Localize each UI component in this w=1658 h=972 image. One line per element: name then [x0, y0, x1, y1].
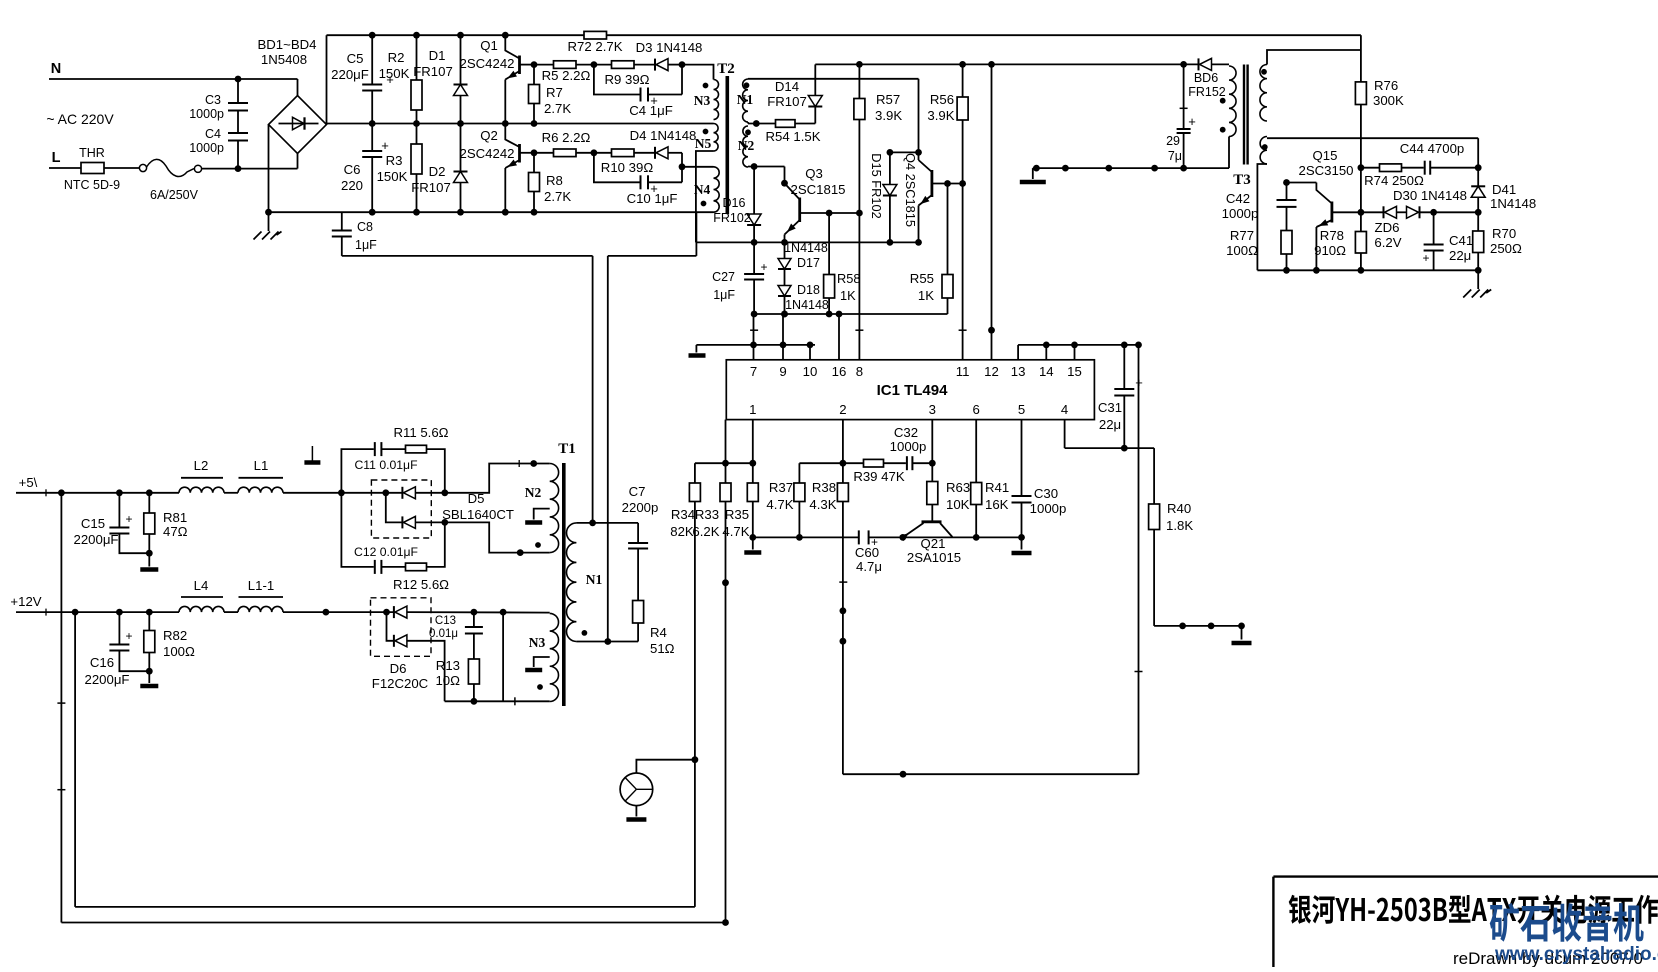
svg-text:FR102: FR102: [713, 211, 751, 225]
svg-text:12: 12: [984, 364, 999, 379]
svg-text:14: 14: [1039, 364, 1054, 379]
svg-text:250Ω: 250Ω: [1490, 241, 1522, 256]
svg-text:100Ω: 100Ω: [163, 644, 195, 659]
svg-text:2200μF: 2200μF: [74, 532, 119, 547]
svg-text:L2: L2: [194, 458, 209, 473]
svg-text:3.9K: 3.9K: [875, 108, 902, 123]
svg-text:1K: 1K: [918, 288, 934, 303]
svg-text:R70: R70: [1492, 226, 1516, 241]
svg-text:22μ: 22μ: [1449, 248, 1471, 263]
svg-text:D4 1N4148: D4 1N4148: [630, 128, 697, 143]
svg-text:T1: T1: [558, 441, 576, 457]
svg-text:R34: R34: [671, 507, 695, 522]
svg-text:D15 FR102: D15 FR102: [869, 153, 884, 218]
svg-text:15: 15: [1067, 364, 1082, 379]
svg-text:+: +: [125, 512, 132, 526]
svg-text:D18: D18: [797, 283, 820, 297]
svg-text:9: 9: [779, 364, 786, 379]
svg-text:2SC3150: 2SC3150: [1299, 163, 1354, 178]
svg-text:FR107: FR107: [767, 94, 807, 109]
svg-text:Q2: Q2: [480, 128, 498, 143]
svg-text:R3: R3: [386, 153, 403, 168]
svg-text:910Ω: 910Ω: [1314, 243, 1346, 258]
svg-text:6A/250V: 6A/250V: [150, 188, 199, 202]
svg-text:R78: R78: [1320, 228, 1344, 243]
svg-text:C32: C32: [894, 425, 918, 440]
svg-text:IC1 TL494: IC1 TL494: [877, 382, 949, 399]
svg-text:6.2V: 6.2V: [1374, 235, 1401, 250]
svg-text:R41: R41: [985, 480, 1009, 495]
svg-text:C5: C5: [347, 51, 364, 66]
svg-text:R9 39Ω: R9 39Ω: [604, 72, 649, 87]
svg-text:R12 5.6Ω: R12 5.6Ω: [393, 577, 449, 592]
svg-text:3: 3: [929, 402, 936, 417]
svg-text:1N4148: 1N4148: [785, 298, 829, 312]
svg-text:13: 13: [1011, 364, 1026, 379]
svg-text:2SC1815: 2SC1815: [791, 182, 846, 197]
svg-text:Q3: Q3: [805, 166, 823, 181]
svg-text:C31: C31: [1098, 400, 1122, 415]
svg-text:R40: R40: [1167, 501, 1191, 516]
svg-text:L1: L1: [254, 458, 269, 473]
svg-text:8: 8: [856, 364, 863, 379]
svg-text:2SA1015: 2SA1015: [907, 550, 961, 565]
svg-text:150K: 150K: [377, 169, 408, 184]
svg-text:FR107: FR107: [413, 64, 453, 79]
svg-text:82K: 82K: [670, 524, 694, 539]
svg-text:220: 220: [341, 178, 363, 193]
svg-text:FR107: FR107: [411, 180, 451, 195]
svg-text:10Ω: 10Ω: [435, 673, 460, 688]
svg-text:T3: T3: [1233, 172, 1251, 188]
svg-text:C11 0.01μF: C11 0.01μF: [354, 458, 417, 472]
svg-text:R38: R38: [812, 480, 836, 495]
svg-text:C60: C60: [855, 545, 879, 560]
svg-text:300K: 300K: [1373, 93, 1404, 108]
svg-text:1N5408: 1N5408: [261, 52, 307, 67]
svg-text:11: 11: [956, 364, 970, 379]
svg-text:+12V: +12V: [10, 594, 41, 609]
svg-text:C10 1μF: C10 1μF: [627, 191, 678, 206]
svg-text:NTC 5D-9: NTC 5D-9: [64, 178, 120, 192]
svg-text:R7: R7: [546, 85, 563, 100]
svg-text:C42: C42: [1226, 191, 1250, 206]
svg-text:10K: 10K: [946, 497, 970, 512]
svg-text:4.7K: 4.7K: [722, 524, 749, 539]
svg-text:C13: C13: [435, 615, 456, 627]
svg-text:10: 10: [803, 364, 818, 379]
svg-text:Q4 2SC1815: Q4 2SC1815: [903, 153, 918, 227]
svg-text:4.7K: 4.7K: [766, 497, 793, 512]
svg-text:R74 250Ω: R74 250Ω: [1364, 173, 1424, 188]
svg-text:D30 1N4148: D30 1N4148: [1393, 188, 1467, 203]
svg-text:R33: R33: [695, 507, 719, 522]
svg-text:R6 2.2Ω: R6 2.2Ω: [542, 130, 591, 145]
svg-text:+: +: [760, 260, 767, 274]
svg-text:T2: T2: [717, 61, 735, 77]
svg-text:0.01μ: 0.01μ: [429, 628, 458, 640]
svg-text:2SC4242: 2SC4242: [460, 56, 515, 71]
svg-text:C12 0.01μF: C12 0.01μF: [354, 545, 418, 559]
svg-text:+: +: [1422, 251, 1429, 265]
svg-text:D17: D17: [797, 256, 820, 270]
svg-text:R35: R35: [725, 507, 749, 522]
svg-text:2.7K: 2.7K: [544, 189, 571, 204]
svg-text:C15: C15: [81, 516, 105, 531]
svg-text:R5 2.2Ω: R5 2.2Ω: [542, 68, 591, 83]
svg-text:1μF: 1μF: [713, 288, 735, 302]
svg-text:16K: 16K: [985, 497, 1009, 512]
svg-text:1K: 1K: [840, 288, 856, 303]
svg-text:D1: D1: [429, 48, 446, 63]
svg-text:R54 1.5K: R54 1.5K: [766, 129, 821, 144]
svg-text:+: +: [381, 138, 389, 153]
svg-text:+: +: [125, 629, 132, 643]
svg-text:1: 1: [749, 402, 756, 417]
svg-text:ZD6: ZD6: [1375, 220, 1400, 235]
svg-text:N5: N5: [695, 136, 712, 151]
svg-text:R77: R77: [1230, 228, 1254, 243]
svg-text:C30: C30: [1034, 486, 1058, 501]
svg-text:THR: THR: [79, 146, 105, 160]
svg-text:1000p: 1000p: [1030, 501, 1067, 516]
svg-text:29: 29: [1166, 134, 1180, 148]
svg-text:N3: N3: [694, 93, 711, 108]
svg-text:BD1~BD4: BD1~BD4: [257, 37, 316, 52]
svg-text:1000p: 1000p: [189, 107, 224, 121]
svg-text:100Ω: 100Ω: [1226, 243, 1258, 258]
svg-text:R76: R76: [1374, 78, 1398, 93]
svg-text:R72 2.7K: R72 2.7K: [568, 39, 623, 54]
svg-text:51Ω: 51Ω: [650, 641, 675, 656]
svg-text:C27: C27: [712, 270, 735, 284]
svg-text:1μF: 1μF: [355, 238, 377, 252]
svg-text:2SC4242: 2SC4242: [460, 146, 515, 161]
svg-text:1000p: 1000p: [189, 141, 224, 155]
svg-text:C44 4700p: C44 4700p: [1400, 141, 1465, 156]
svg-text:R58: R58: [837, 271, 860, 286]
svg-text:L4: L4: [194, 578, 209, 593]
svg-text:C7: C7: [629, 484, 646, 499]
svg-text:N1: N1: [737, 92, 754, 107]
svg-text:R4: R4: [650, 625, 667, 640]
svg-text:6: 6: [973, 402, 980, 417]
svg-text:+: +: [1188, 114, 1196, 129]
svg-text:2: 2: [839, 402, 846, 417]
svg-text:N2: N2: [525, 485, 542, 500]
svg-text:~ AC 220V: ~ AC 220V: [46, 111, 114, 127]
svg-text:N3: N3: [529, 635, 546, 650]
svg-text:N: N: [51, 61, 61, 77]
svg-text:www.crystalradio.cn: www.crystalradio.cn: [1494, 944, 1658, 965]
svg-text:220μF: 220μF: [331, 67, 369, 82]
svg-text:1N4148: 1N4148: [1490, 196, 1536, 211]
svg-text:R55: R55: [910, 271, 934, 286]
svg-text:R63: R63: [946, 480, 970, 495]
svg-text:7μ: 7μ: [1168, 149, 1182, 163]
svg-text:L1-1: L1-1: [248, 578, 274, 593]
svg-text:2200p: 2200p: [622, 500, 659, 515]
svg-text:R57: R57: [876, 92, 900, 107]
svg-text:C41: C41: [1449, 233, 1473, 248]
svg-text:6.2K: 6.2K: [692, 524, 719, 539]
svg-text:D14: D14: [775, 79, 799, 94]
svg-text:BD6: BD6: [1194, 71, 1218, 85]
svg-text:47Ω: 47Ω: [163, 524, 188, 539]
svg-text:Q1: Q1: [480, 38, 498, 53]
svg-text:C8: C8: [357, 220, 373, 234]
svg-text:C16: C16: [90, 655, 114, 670]
svg-text:16: 16: [832, 364, 847, 379]
svg-text:D2: D2: [429, 164, 446, 179]
svg-text:3.9K: 3.9K: [927, 108, 954, 123]
svg-text:1000p: 1000p: [890, 439, 927, 454]
svg-text:C4 1μF: C4 1μF: [629, 103, 673, 118]
svg-text:C3: C3: [205, 93, 221, 107]
svg-text:1.8K: 1.8K: [1166, 518, 1193, 533]
svg-text:R2: R2: [388, 50, 405, 65]
svg-text:SBL1640CT: SBL1640CT: [442, 507, 514, 522]
svg-text:N1: N1: [586, 572, 603, 587]
svg-text:R81: R81: [163, 510, 187, 525]
svg-text:5: 5: [1018, 402, 1025, 417]
svg-text:D16: D16: [723, 196, 746, 210]
svg-text:22μ: 22μ: [1099, 417, 1121, 432]
svg-text:C4: C4: [205, 127, 221, 141]
svg-text:7: 7: [750, 364, 757, 379]
svg-text:R39 47K: R39 47K: [853, 469, 905, 484]
svg-text:D41: D41: [1492, 182, 1516, 197]
svg-text:FR152: FR152: [1188, 85, 1226, 99]
svg-text:D6: D6: [390, 661, 407, 676]
svg-text:R37: R37: [769, 480, 793, 495]
svg-text:4.7μ: 4.7μ: [856, 559, 882, 574]
svg-text:F12C20C: F12C20C: [372, 676, 429, 691]
svg-text:2200μF: 2200μF: [85, 672, 130, 687]
svg-text:4: 4: [1061, 402, 1068, 417]
svg-text:Q15: Q15: [1313, 148, 1338, 163]
svg-text:R82: R82: [163, 628, 187, 643]
svg-text:C6: C6: [344, 162, 361, 177]
svg-text:N2: N2: [738, 138, 755, 153]
svg-text:2.7K: 2.7K: [544, 101, 571, 116]
svg-text:R56: R56: [930, 92, 954, 107]
svg-text:R13: R13: [436, 658, 460, 673]
svg-text:R11 5.6Ω: R11 5.6Ω: [393, 425, 448, 440]
svg-text:+5\: +5\: [19, 475, 38, 490]
svg-text:150K: 150K: [379, 66, 410, 81]
svg-text:1000p: 1000p: [1222, 206, 1259, 221]
svg-text:L: L: [52, 150, 61, 166]
svg-text:R8: R8: [546, 173, 563, 188]
svg-text:R10 39Ω: R10 39Ω: [601, 160, 654, 175]
svg-text:4.3K: 4.3K: [809, 497, 836, 512]
svg-text:D3 1N4148: D3 1N4148: [636, 40, 703, 55]
